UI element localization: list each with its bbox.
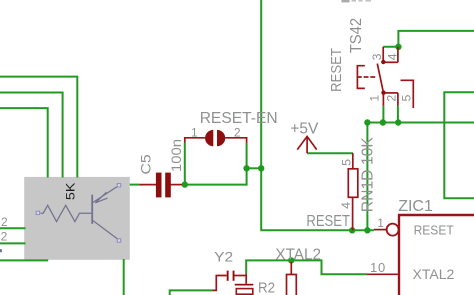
svg-text:4: 4 — [339, 202, 353, 209]
svg-text:RESET: RESET — [306, 213, 350, 230]
svg-text:1: 1 — [191, 125, 198, 139]
svg-text:100n: 100n — [168, 139, 184, 172]
svg-text:Y2: Y2 — [214, 249, 233, 265]
svg-text:4: 4 — [385, 53, 399, 60]
svg-text:1: 1 — [368, 95, 382, 102]
svg-text:R2: R2 — [258, 280, 275, 295]
svg-text:C5: C5 — [138, 154, 154, 174]
svg-text:TS42: TS42 — [348, 18, 365, 53]
svg-text:2: 2 — [1, 215, 8, 229]
svg-text:5: 5 — [400, 95, 414, 102]
svg-text:5: 5 — [339, 159, 353, 166]
svg-text:XTAL2: XTAL2 — [275, 247, 321, 264]
svg-text:RESET: RESET — [329, 48, 345, 92]
svg-text:1: 1 — [377, 216, 384, 230]
svg-text:XTAL2: XTAL2 — [413, 266, 455, 282]
svg-text:5K: 5K — [63, 183, 77, 201]
svg-text:2: 2 — [385, 95, 399, 102]
svg-text:2: 2 — [234, 125, 241, 139]
svg-text:3: 3 — [370, 53, 384, 60]
svg-text:RN1D 10K: RN1D 10K — [360, 137, 377, 212]
svg-text:10: 10 — [370, 260, 386, 275]
svg-text:+5V: +5V — [290, 120, 319, 137]
svg-text:RESET: RESET — [414, 223, 454, 238]
svg-text:2: 2 — [1, 229, 8, 243]
svg-text:ZIC1: ZIC1 — [398, 198, 433, 215]
